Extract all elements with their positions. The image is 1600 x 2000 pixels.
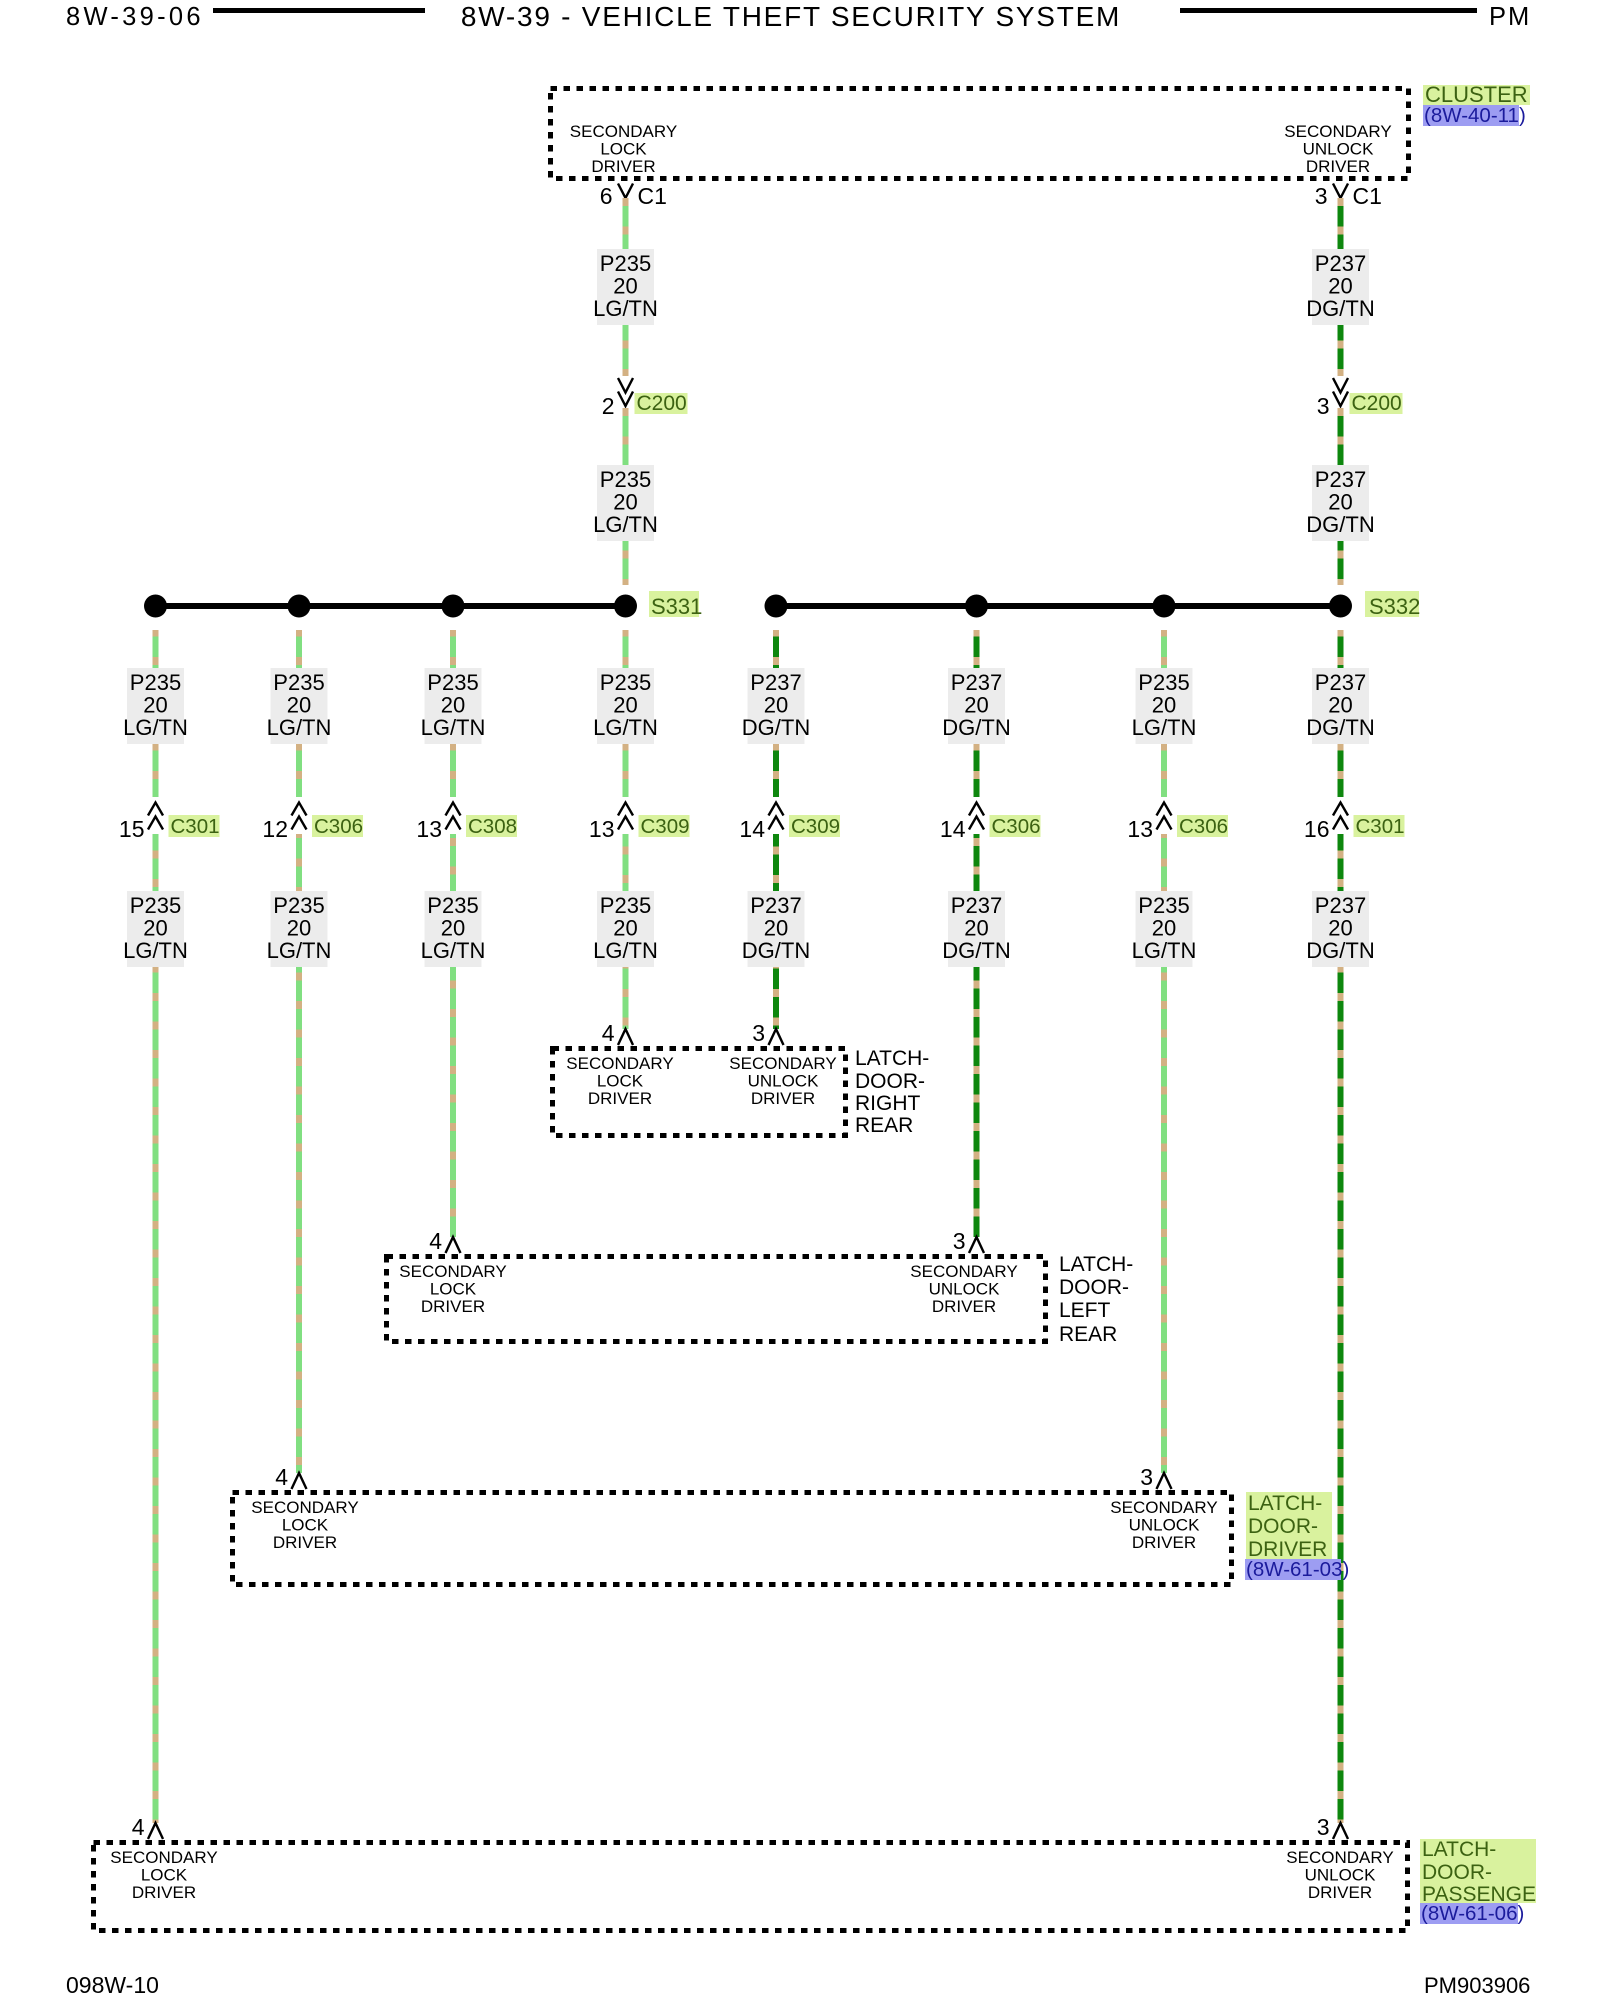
svg-text:4: 4	[429, 1228, 442, 1254]
wire P235 LG/TN from C1 pin 6 to C200	[623, 198, 629, 377]
svg-text:LATCH-: LATCH-	[855, 1047, 929, 1070]
svg-text:14: 14	[739, 816, 765, 842]
svg-text:P235: P235	[273, 670, 324, 695]
wire P237 DG/TN C309 to right rear door latch	[773, 834, 779, 1029]
svg-text:DRIVER: DRIVER	[588, 1089, 652, 1108]
svg-text:LATCH-: LATCH-	[1422, 1838, 1496, 1861]
pin 6 of connector C1	[600, 183, 667, 209]
svg-text:UNLOCK: UNLOCK	[929, 1280, 1001, 1299]
svg-text:DRIVER: DRIVER	[1306, 157, 1370, 176]
svg-text:14: 14	[940, 816, 966, 842]
svg-text:C301: C301	[171, 815, 220, 838]
svg-text:SECONDARY: SECONDARY	[110, 1848, 217, 1867]
svg-text:DOOR-: DOOR-	[855, 1070, 925, 1093]
svg-text:20: 20	[613, 274, 637, 299]
wire label P237 20 DG/TN	[1306, 891, 1374, 967]
svg-text:P237: P237	[1315, 893, 1366, 918]
svg-text:DG/TN: DG/TN	[942, 715, 1010, 740]
label CLUSTER	[1423, 82, 1530, 107]
svg-text:20: 20	[143, 693, 167, 718]
svg-text:20: 20	[764, 693, 788, 718]
svg-text:DG/TN: DG/TN	[742, 938, 810, 963]
wire label P235 20 LG/TN	[267, 668, 332, 744]
header left rule	[213, 8, 425, 13]
svg-text:DRIVER: DRIVER	[932, 1297, 996, 1316]
svg-text:P237: P237	[951, 893, 1002, 918]
cluster output SECONDARY UNLOCK DRIVER	[1284, 122, 1391, 176]
svg-text:20: 20	[441, 916, 465, 941]
wire P235 LG/TN C306 to driver door latch	[1161, 834, 1167, 1473]
in-line connector C306 pin 13	[1127, 797, 1228, 842]
svg-text:20: 20	[613, 916, 637, 941]
svg-text:DRIVER: DRIVER	[132, 1883, 196, 1902]
in-line connector C308 pin 13	[416, 797, 517, 842]
svg-text:P235: P235	[130, 893, 181, 918]
wire label P235 20 LG/TN	[593, 891, 658, 967]
pin 3 at driver door latch	[1140, 1464, 1171, 1490]
svg-text:20: 20	[1328, 916, 1352, 941]
svg-text:P235: P235	[600, 670, 651, 695]
svg-text:2: 2	[602, 393, 615, 419]
svg-text:3: 3	[1315, 183, 1328, 209]
wire P237 DG/TN from C1 pin 3 to C200	[1338, 198, 1344, 377]
in-line connector C301 pin 15	[119, 797, 220, 842]
latch right rear SECONDARY UNLOCK DRIVER	[729, 1054, 836, 1108]
wire label P235 20 LG/TN	[267, 891, 332, 967]
in-line connector C301 pin 16	[1304, 797, 1405, 842]
svg-text:P237: P237	[1315, 670, 1366, 695]
wire P237 DG/TN splice to C301	[1338, 630, 1344, 797]
svg-text:(8W-61-03): (8W-61-03)	[1246, 1558, 1349, 1581]
svg-text:LATCH-: LATCH-	[1248, 1492, 1322, 1515]
svg-text:8W-39-06: 8W-39-06	[66, 3, 204, 31]
page ref (8W-61-03)	[1245, 1558, 1349, 1581]
svg-text:S331: S331	[651, 594, 702, 619]
svg-text:SECONDARY: SECONDARY	[1286, 1848, 1393, 1867]
svg-text:LG/TN: LG/TN	[267, 938, 332, 963]
wire P235 LG/TN C301 to passenger door latch	[153, 834, 159, 1823]
svg-text:C301: C301	[1356, 815, 1405, 838]
svg-text:LATCH-: LATCH-	[1059, 1253, 1133, 1276]
latch box DOOR-DRIVER	[233, 1493, 1232, 1585]
svg-text:6: 6	[600, 183, 613, 209]
svg-text:DOOR-: DOOR-	[1422, 1861, 1492, 1884]
svg-text:C306: C306	[1179, 815, 1228, 838]
wire P237 DG/TN C306 to left rear door latch	[974, 834, 980, 1237]
splice S331 (lock driver bus)	[144, 591, 702, 619]
svg-text:16: 16	[1304, 816, 1330, 842]
svg-text:LG/TN: LG/TN	[421, 938, 486, 963]
svg-text:SECONDARY: SECONDARY	[1110, 1498, 1217, 1517]
cluster output SECONDARY LOCK DRIVER	[570, 122, 677, 176]
latch right rear SECONDARY LOCK DRIVER	[566, 1054, 673, 1108]
wire label P237 20 DG/TN	[1306, 465, 1374, 541]
svg-text:SECONDARY: SECONDARY	[570, 122, 677, 141]
svg-text:DRIVER: DRIVER	[591, 157, 655, 176]
svg-text:13: 13	[589, 816, 615, 842]
svg-text:S332: S332	[1369, 594, 1420, 619]
svg-text:UNLOCK: UNLOCK	[1129, 1516, 1201, 1535]
svg-text:C309: C309	[791, 815, 840, 838]
svg-text:20: 20	[613, 693, 637, 718]
pin 4 at passenger door latch	[132, 1814, 163, 1840]
label LATCH-DOOR-LEFT REAR	[1059, 1253, 1133, 1346]
page ref (8W-61-06)	[1420, 1902, 1524, 1925]
connector box CLUSTER (instrument cluster)	[551, 89, 1409, 179]
wire P235 LG/TN splice to C309	[623, 630, 629, 797]
svg-text:SECONDARY: SECONDARY	[729, 1054, 836, 1073]
svg-text:LG/TN: LG/TN	[123, 938, 188, 963]
svg-text:SECONDARY: SECONDARY	[399, 1262, 506, 1281]
header page number 8W-39-06	[66, 3, 204, 31]
svg-text:20: 20	[1328, 693, 1352, 718]
latch box DOOR-LEFT-REAR	[387, 1257, 1046, 1342]
in-line connector C200 pin 2	[602, 376, 688, 419]
svg-text:P235: P235	[600, 893, 651, 918]
svg-text:P237: P237	[951, 670, 1002, 695]
svg-text:LG/TN: LG/TN	[1132, 715, 1197, 740]
svg-text:DG/TN: DG/TN	[1306, 512, 1374, 537]
wire label P235 20 LG/TN	[593, 465, 658, 541]
in-line connector C309 pin 13	[589, 797, 690, 842]
svg-text:LEFT: LEFT	[1059, 1299, 1111, 1322]
svg-text:LG/TN: LG/TN	[421, 715, 486, 740]
svg-text:LOCK: LOCK	[597, 1072, 644, 1091]
label LATCH-DOOR-DRIVER	[1246, 1492, 1332, 1561]
latch box DOOR-PASSENGER	[94, 1843, 1408, 1931]
svg-text:LG/TN: LG/TN	[593, 715, 658, 740]
svg-text:20: 20	[764, 916, 788, 941]
wire P235 LG/TN splice to C306	[1161, 630, 1167, 797]
svg-text:C1: C1	[638, 183, 667, 209]
svg-text:4: 4	[132, 1814, 145, 1840]
wire label P235 20 LG/TN	[593, 668, 658, 744]
svg-text:P235: P235	[1138, 893, 1189, 918]
svg-text:RIGHT: RIGHT	[855, 1092, 921, 1115]
svg-text:098W-10: 098W-10	[66, 1972, 159, 1998]
in-line connector C306 pin 12	[262, 797, 363, 842]
svg-text:LG/TN: LG/TN	[593, 938, 658, 963]
svg-text:P235: P235	[600, 251, 651, 276]
pin 3 at passenger door latch	[1317, 1814, 1348, 1840]
wire label P237 20 DG/TN	[942, 668, 1010, 744]
svg-text:SECONDARY: SECONDARY	[566, 1054, 673, 1073]
latch left rear SECONDARY LOCK DRIVER	[399, 1262, 506, 1316]
svg-text:P237: P237	[1315, 251, 1366, 276]
in-line connector C306 pin 14	[940, 797, 1041, 842]
wire P237 DG/TN from C200 to splice S332	[1338, 408, 1344, 585]
svg-text:P235: P235	[427, 893, 478, 918]
svg-text:P235: P235	[427, 670, 478, 695]
in-line connector C200 pin 3	[1317, 376, 1403, 419]
svg-text:DRIVER: DRIVER	[1132, 1533, 1196, 1552]
wire label P237 20 DG/TN	[1306, 249, 1374, 325]
svg-text:DRIVER: DRIVER	[751, 1089, 815, 1108]
svg-text:REAR: REAR	[855, 1114, 913, 1137]
svg-text:UNLOCK: UNLOCK	[1303, 140, 1375, 159]
latch box DOOR-RIGHT-REAR	[553, 1049, 846, 1136]
pin 4 at right rear door latch	[602, 1020, 633, 1046]
wire P235 LG/TN splice to C306	[296, 630, 302, 797]
header PM	[1489, 3, 1531, 31]
wire P235 LG/TN from C200 to splice S331	[623, 408, 629, 585]
svg-text:DOOR-: DOOR-	[1059, 1276, 1129, 1299]
svg-text:15: 15	[119, 816, 145, 842]
wire P237 DG/TN splice to C309	[773, 630, 779, 797]
wire label P237 20 DG/TN	[1306, 668, 1374, 744]
label LATCH-DOOR-PASSENGER	[1420, 1838, 1551, 1906]
svg-text:P235: P235	[600, 467, 651, 492]
svg-text:DRIVER: DRIVER	[1308, 1883, 1372, 1902]
header title 8W-39 - VEHICLE THEFT SECURITY SYSTEM	[461, 1, 1121, 32]
svg-text:20: 20	[964, 693, 988, 718]
svg-text:P235: P235	[130, 670, 181, 695]
svg-text:(8W-40-11): (8W-40-11)	[1424, 104, 1526, 127]
splice S332 (unlock driver bus)	[765, 591, 1421, 619]
svg-text:3: 3	[1317, 393, 1330, 419]
svg-text:8W-39 - VEHICLE THEFT SECURITY: 8W-39 - VEHICLE THEFT SECURITY SYSTEM	[461, 1, 1121, 32]
pin 3 at left rear door latch	[953, 1228, 984, 1254]
svg-text:P237: P237	[750, 670, 801, 695]
latch driver SECONDARY UNLOCK DRIVER	[1110, 1498, 1217, 1552]
wire P237 DG/TN C301 to passenger door latch	[1338, 834, 1344, 1823]
svg-text:(8W-61-06): (8W-61-06)	[1421, 1902, 1524, 1925]
svg-text:3: 3	[953, 1228, 966, 1254]
svg-text:PM: PM	[1489, 3, 1531, 31]
svg-text:LG/TN: LG/TN	[593, 296, 658, 321]
svg-text:20: 20	[143, 916, 167, 941]
pin 4 at driver door latch	[275, 1464, 306, 1490]
svg-text:C200: C200	[1352, 392, 1402, 415]
svg-text:DRIVER: DRIVER	[273, 1533, 337, 1552]
svg-text:20: 20	[287, 693, 311, 718]
wire P235 LG/TN splice to C308	[450, 630, 456, 797]
wire label P235 20 LG/TN	[593, 249, 658, 325]
svg-text:20: 20	[1152, 916, 1176, 941]
wire label P237 20 DG/TN	[742, 668, 810, 744]
svg-text:DG/TN: DG/TN	[942, 938, 1010, 963]
svg-text:DG/TN: DG/TN	[1306, 938, 1374, 963]
svg-text:LG/TN: LG/TN	[267, 715, 332, 740]
in-line connector C309 pin 14	[739, 797, 840, 842]
svg-text:C200: C200	[637, 392, 687, 415]
wire label P235 20 LG/TN	[421, 891, 486, 967]
svg-text:C306: C306	[992, 815, 1041, 838]
svg-text:LOCK: LOCK	[430, 1280, 477, 1299]
wire label P237 20 DG/TN	[742, 891, 810, 967]
svg-text:DOOR-: DOOR-	[1248, 1515, 1318, 1538]
svg-text:LOCK: LOCK	[600, 140, 647, 159]
svg-text:20: 20	[1152, 693, 1176, 718]
latch driver SECONDARY LOCK DRIVER	[251, 1498, 358, 1552]
svg-text:SECONDARY: SECONDARY	[910, 1262, 1017, 1281]
svg-text:3: 3	[1317, 1814, 1330, 1840]
svg-text:C309: C309	[641, 815, 690, 838]
wire P235 LG/TN C309 to right rear door latch	[623, 834, 629, 1029]
pin 3 of connector C1	[1315, 183, 1382, 209]
svg-text:20: 20	[1328, 274, 1352, 299]
svg-text:4: 4	[602, 1020, 615, 1046]
wire label P235 20 LG/TN	[1132, 668, 1197, 744]
wire P235 LG/TN C308 to left rear door latch	[450, 834, 456, 1237]
svg-text:SECONDARY: SECONDARY	[1284, 122, 1391, 141]
svg-text:DRIVER: DRIVER	[421, 1297, 485, 1316]
latch passenger SECONDARY LOCK DRIVER	[110, 1848, 217, 1902]
wire label P235 20 LG/TN	[1132, 891, 1197, 967]
page ref (8W-40-11)	[1423, 104, 1526, 127]
svg-text:13: 13	[416, 816, 442, 842]
svg-text:DG/TN: DG/TN	[742, 715, 810, 740]
wire label P235 20 LG/TN	[421, 668, 486, 744]
svg-text:LG/TN: LG/TN	[123, 715, 188, 740]
svg-text:4: 4	[275, 1464, 288, 1490]
svg-text:UNLOCK: UNLOCK	[1305, 1866, 1377, 1885]
svg-text:13: 13	[1127, 816, 1153, 842]
pin 3 at right rear door latch	[752, 1020, 783, 1046]
svg-text:12: 12	[262, 816, 288, 842]
svg-text:20: 20	[441, 693, 465, 718]
svg-text:20: 20	[964, 916, 988, 941]
svg-text:20: 20	[613, 490, 637, 515]
svg-text:C1: C1	[1353, 183, 1382, 209]
svg-text:DG/TN: DG/TN	[1306, 715, 1374, 740]
wire label P235 20 LG/TN	[123, 891, 188, 967]
svg-text:C306: C306	[314, 815, 363, 838]
pin 4 at left rear door latch	[429, 1228, 460, 1254]
svg-text:P237: P237	[750, 893, 801, 918]
wire P235 LG/TN C306 to driver door latch	[296, 834, 302, 1473]
wire P235 LG/TN splice to C301	[153, 630, 159, 797]
wire P237 DG/TN splice to C306	[974, 630, 980, 797]
svg-text:LG/TN: LG/TN	[1132, 938, 1197, 963]
wire label P235 20 LG/TN	[123, 668, 188, 744]
svg-text:LG/TN: LG/TN	[593, 512, 658, 537]
svg-text:REAR: REAR	[1059, 1323, 1117, 1346]
svg-text:P235: P235	[1138, 670, 1189, 695]
svg-text:UNLOCK: UNLOCK	[748, 1072, 820, 1091]
footer part number PM903906	[1424, 1973, 1530, 1998]
svg-text:P237: P237	[1315, 467, 1366, 492]
header right rule	[1180, 8, 1477, 13]
wire label P237 20 DG/TN	[942, 891, 1010, 967]
svg-text:C308: C308	[468, 815, 517, 838]
svg-text:P235: P235	[273, 893, 324, 918]
svg-text:20: 20	[287, 916, 311, 941]
svg-text:3: 3	[752, 1020, 765, 1046]
svg-text:LOCK: LOCK	[282, 1516, 329, 1535]
svg-text:20: 20	[1328, 490, 1352, 515]
latch left rear SECONDARY UNLOCK DRIVER	[910, 1262, 1017, 1316]
svg-text:DG/TN: DG/TN	[1306, 296, 1374, 321]
svg-text:LOCK: LOCK	[141, 1866, 188, 1885]
label LATCH-DOOR-RIGHT REAR	[855, 1047, 929, 1137]
footer sheet number 098W-10	[66, 1972, 159, 1998]
svg-text:PM903906: PM903906	[1424, 1973, 1530, 1998]
latch passenger SECONDARY UNLOCK DRIVER	[1286, 1848, 1393, 1902]
svg-text:3: 3	[1140, 1464, 1153, 1490]
svg-text:SECONDARY: SECONDARY	[251, 1498, 358, 1517]
